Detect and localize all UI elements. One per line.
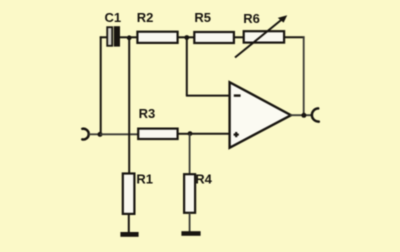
- svg-text:R3: R3: [139, 106, 156, 121]
- svg-text:C1: C1: [105, 10, 122, 25]
- svg-text:R2: R2: [137, 10, 154, 25]
- wire R2 to node C: [178, 36, 187, 38]
- wire node C down to inverting input row: [186, 38, 188, 96]
- wire op-amp output to node E: [290, 114, 312, 116]
- wire node A to R3: [100, 133, 138, 135]
- wire node D to op-amp non-inverting input: [190, 133, 230, 135]
- node A (input junction): [98, 132, 103, 137]
- svg-text:R1: R1: [136, 171, 153, 186]
- wire R1 to ground: [128, 214, 130, 233]
- ground (below R1): [120, 232, 138, 237]
- wire to op-amp inverting input: [186, 95, 230, 97]
- wire node D down to R4: [189, 134, 191, 174]
- wire R6 to feedback corner: [284, 36, 305, 38]
- node C (R2/R5 junction): [184, 35, 189, 40]
- wire node B down to R1 (crosses R3 row): [128, 38, 130, 174]
- ground (below R4): [181, 231, 200, 236]
- output terminal J2: [312, 108, 319, 121]
- wire node A up to C1 row: [100, 36, 102, 134]
- wire R5 to R6: [234, 36, 244, 38]
- resistor R1: [123, 174, 135, 214]
- node B (C1/R2/R1 junction): [127, 35, 132, 40]
- wire R4 to ground: [189, 213, 191, 232]
- input terminal J1: [82, 129, 88, 140]
- wire input terminal to node A: [89, 133, 99, 135]
- resistor R2: [137, 32, 177, 43]
- resistor R6 (variable): [235, 15, 287, 57]
- resistor R5: [194, 32, 234, 43]
- node D (R3/R4 junction): [188, 131, 193, 136]
- svg-text:R4: R4: [195, 172, 212, 187]
- wire corner to C1 left plate: [100, 36, 108, 38]
- resistor R4: [184, 174, 195, 213]
- wire R3 to node D: [178, 133, 190, 135]
- wire node C to R5: [187, 36, 195, 38]
- resistor R3: [138, 129, 177, 139]
- wire node B to R2: [129, 36, 137, 38]
- capacitor C1: [107, 26, 120, 46]
- svg-text:R6: R6: [243, 11, 260, 26]
- svg-text:R5: R5: [194, 10, 211, 25]
- op-amp U1: [230, 82, 291, 148]
- wire feedback vertical down to output node: [303, 36, 305, 115]
- wire C1 to node B: [120, 36, 127, 38]
- node E (output junction): [301, 113, 306, 118]
